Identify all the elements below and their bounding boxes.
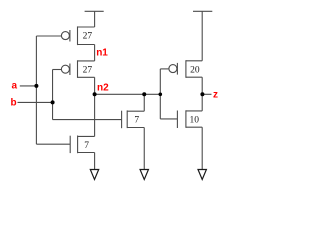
- svg-text:7: 7: [84, 141, 89, 151]
- wire M4 source to ground: [94, 153, 96, 170]
- svg-text:n2: n2: [97, 82, 109, 93]
- junction n2 at inverter gate: [159, 93, 163, 97]
- vdd rail 2: [193, 10, 212, 12]
- wire a to M4 gate: [36, 143, 70, 145]
- svg-text:z: z: [213, 89, 218, 100]
- wire M3 source to ground: [143, 128, 145, 170]
- svg-text:7: 7: [134, 115, 139, 125]
- wire M6 source to ground: [201, 127, 203, 169]
- junction node b: [51, 100, 55, 104]
- pmos M5 (20) inverter pull-up: [160, 60, 202, 78]
- wire input b horizontal: [18, 101, 53, 103]
- wire M6 drain to output: [201, 94, 203, 111]
- ground below M4: [90, 170, 98, 180]
- pmos M2 (27) second transistor: [53, 60, 95, 78]
- junction n2 left: [93, 92, 97, 96]
- wire n2 stem: [94, 77, 96, 94]
- wire input a vertical: [35, 36, 37, 144]
- junction n2 at M3 drain: [142, 92, 146, 96]
- nmos M4 (7) bottom-left transistor: [70, 136, 94, 154]
- ground below M6: [198, 170, 206, 180]
- wire M3 drain to n2 rail: [143, 94, 145, 111]
- ground below M3: [140, 170, 148, 180]
- junction output z node: [200, 92, 204, 96]
- wire vdd1 stem: [94, 11, 96, 27]
- svg-text:a: a: [12, 81, 18, 92]
- svg-text:27: 27: [83, 32, 93, 42]
- nmos M6 (10) inverter pull-down: [160, 110, 202, 128]
- svg-text:b: b: [11, 97, 17, 108]
- wire vdd2 stem: [201, 11, 203, 61]
- wire input a horizontal: [20, 85, 37, 87]
- wire n2 rail: [95, 93, 161, 95]
- wire b to M3 gate: [53, 119, 122, 121]
- wire input b vertical: [52, 70, 54, 120]
- svg-text:27: 27: [83, 66, 93, 76]
- svg-text:n1: n1: [96, 47, 108, 58]
- svg-text:10: 10: [190, 115, 200, 125]
- wire M5 drain to output: [201, 77, 203, 94]
- nmos M3 (7) middle transistor: [122, 110, 145, 128]
- wire output z: [202, 93, 211, 95]
- wire M4 drain to n2: [94, 94, 96, 136]
- pmos M1 (27) top transistor: [36, 26, 94, 45]
- wire n1 segment: [94, 45, 96, 61]
- svg-text:20: 20: [190, 66, 200, 76]
- vdd rail 1: [85, 10, 104, 12]
- junction node a: [34, 84, 38, 88]
- wire inverter gate vertical: [159, 69, 161, 119]
